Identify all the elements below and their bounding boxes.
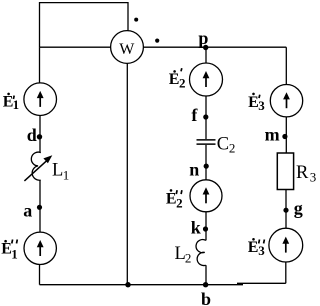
- wattmeter W circle: [111, 31, 144, 64]
- wire bottom main: [40, 284, 244, 286]
- wire bottom-left vertical from E''1: [39, 264, 41, 284]
- arrow of variable inductor L1: [24, 160, 47, 181]
- svg-text:p: p: [198, 28, 208, 48]
- source E''3 circle: [269, 228, 303, 262]
- svg-text:E: E: [166, 190, 177, 207]
- inductor L2 coil: [196, 240, 206, 266]
- svg-text:3: 3: [258, 243, 265, 258]
- wire bottom right segment: [237, 282, 286, 284]
- arrow in E''1: [39, 247, 41, 256]
- arrow in E''3: [285, 243, 287, 252]
- svg-text:g: g: [294, 198, 303, 218]
- wattmeter polarity dot right: [155, 39, 159, 43]
- wire top horizontal right of W: [143, 46, 286, 48]
- svg-text:a: a: [23, 200, 32, 220]
- wire right branch E'3 to R3: [285, 117, 287, 153]
- wattmeter polarity dot upper: [134, 18, 138, 22]
- wire R3 to E''3: [285, 190, 287, 229]
- svg-text:m: m: [265, 125, 280, 145]
- source E'2 circle: [190, 63, 223, 96]
- source E'3 circle: [270, 85, 302, 117]
- svg-text:2: 2: [176, 196, 183, 211]
- wire E''3 to bottom: [285, 262, 287, 283]
- node b: [203, 282, 208, 287]
- resistor R3: [277, 153, 293, 190]
- source E''2 circle: [190, 180, 222, 212]
- svg-text:E: E: [169, 71, 180, 88]
- wire L2 to node b: [205, 265, 207, 285]
- svg-text:k: k: [191, 218, 201, 238]
- svg-text:f: f: [191, 105, 198, 125]
- arrow in E'1: [39, 98, 41, 107]
- wire E'1 to L1 through node d: [39, 116, 41, 153]
- arrow in E'2: [205, 78, 207, 87]
- svg-text:2: 2: [185, 250, 192, 265]
- inductor L1 coil: [31, 152, 40, 180]
- svg-text:2: 2: [229, 141, 236, 156]
- svg-text:1: 1: [13, 97, 20, 112]
- svg-text:1: 1: [11, 247, 17, 262]
- source E'1 circle: [24, 83, 57, 116]
- node n: [204, 164, 209, 169]
- node d: [37, 134, 42, 139]
- wire right branch upper: [285, 47, 287, 84]
- junction of W branch and bottom wire: [125, 282, 130, 287]
- wire capacitor to E''2 through node n: [205, 145, 207, 180]
- source E''1 circle: [24, 232, 56, 264]
- svg-text:2: 2: [179, 75, 186, 90]
- svg-text:3: 3: [310, 170, 317, 185]
- capacitor C2 plate bottom: [197, 143, 216, 145]
- wire E''2 to L2 through node k: [205, 212, 207, 241]
- svg-text:C: C: [217, 135, 229, 155]
- svg-text:R: R: [296, 163, 309, 183]
- node f: [203, 114, 208, 119]
- svg-text:b: b: [201, 289, 211, 306]
- node a: [37, 205, 42, 210]
- svg-text:n: n: [189, 159, 199, 179]
- wire L1 to E''1 through node a: [39, 180, 41, 232]
- wire top horizontal left of W: [40, 46, 111, 48]
- wire W vertical down to bottom: [126, 64, 128, 285]
- wire left branch top: [39, 47, 41, 83]
- node g: [283, 208, 288, 213]
- svg-text:W: W: [119, 41, 135, 58]
- capacitor C2 plate top: [197, 139, 216, 141]
- svg-text:3: 3: [258, 98, 265, 113]
- svg-text:E: E: [248, 94, 259, 111]
- arrow in E''2: [205, 194, 207, 203]
- node k: [203, 226, 208, 231]
- wire top rectangle loop: [40, 3, 129, 48]
- svg-text:1: 1: [63, 167, 69, 182]
- node m: [282, 134, 287, 139]
- wire middle branch p to E'2: [205, 47, 207, 63]
- wire E'2 to capacitor through node f: [205, 96, 207, 139]
- svg-text:L: L: [52, 161, 63, 181]
- svg-text:E: E: [248, 239, 259, 256]
- arrow in E'3: [286, 99, 288, 108]
- svg-text:d: d: [27, 125, 37, 145]
- node p: [203, 45, 208, 50]
